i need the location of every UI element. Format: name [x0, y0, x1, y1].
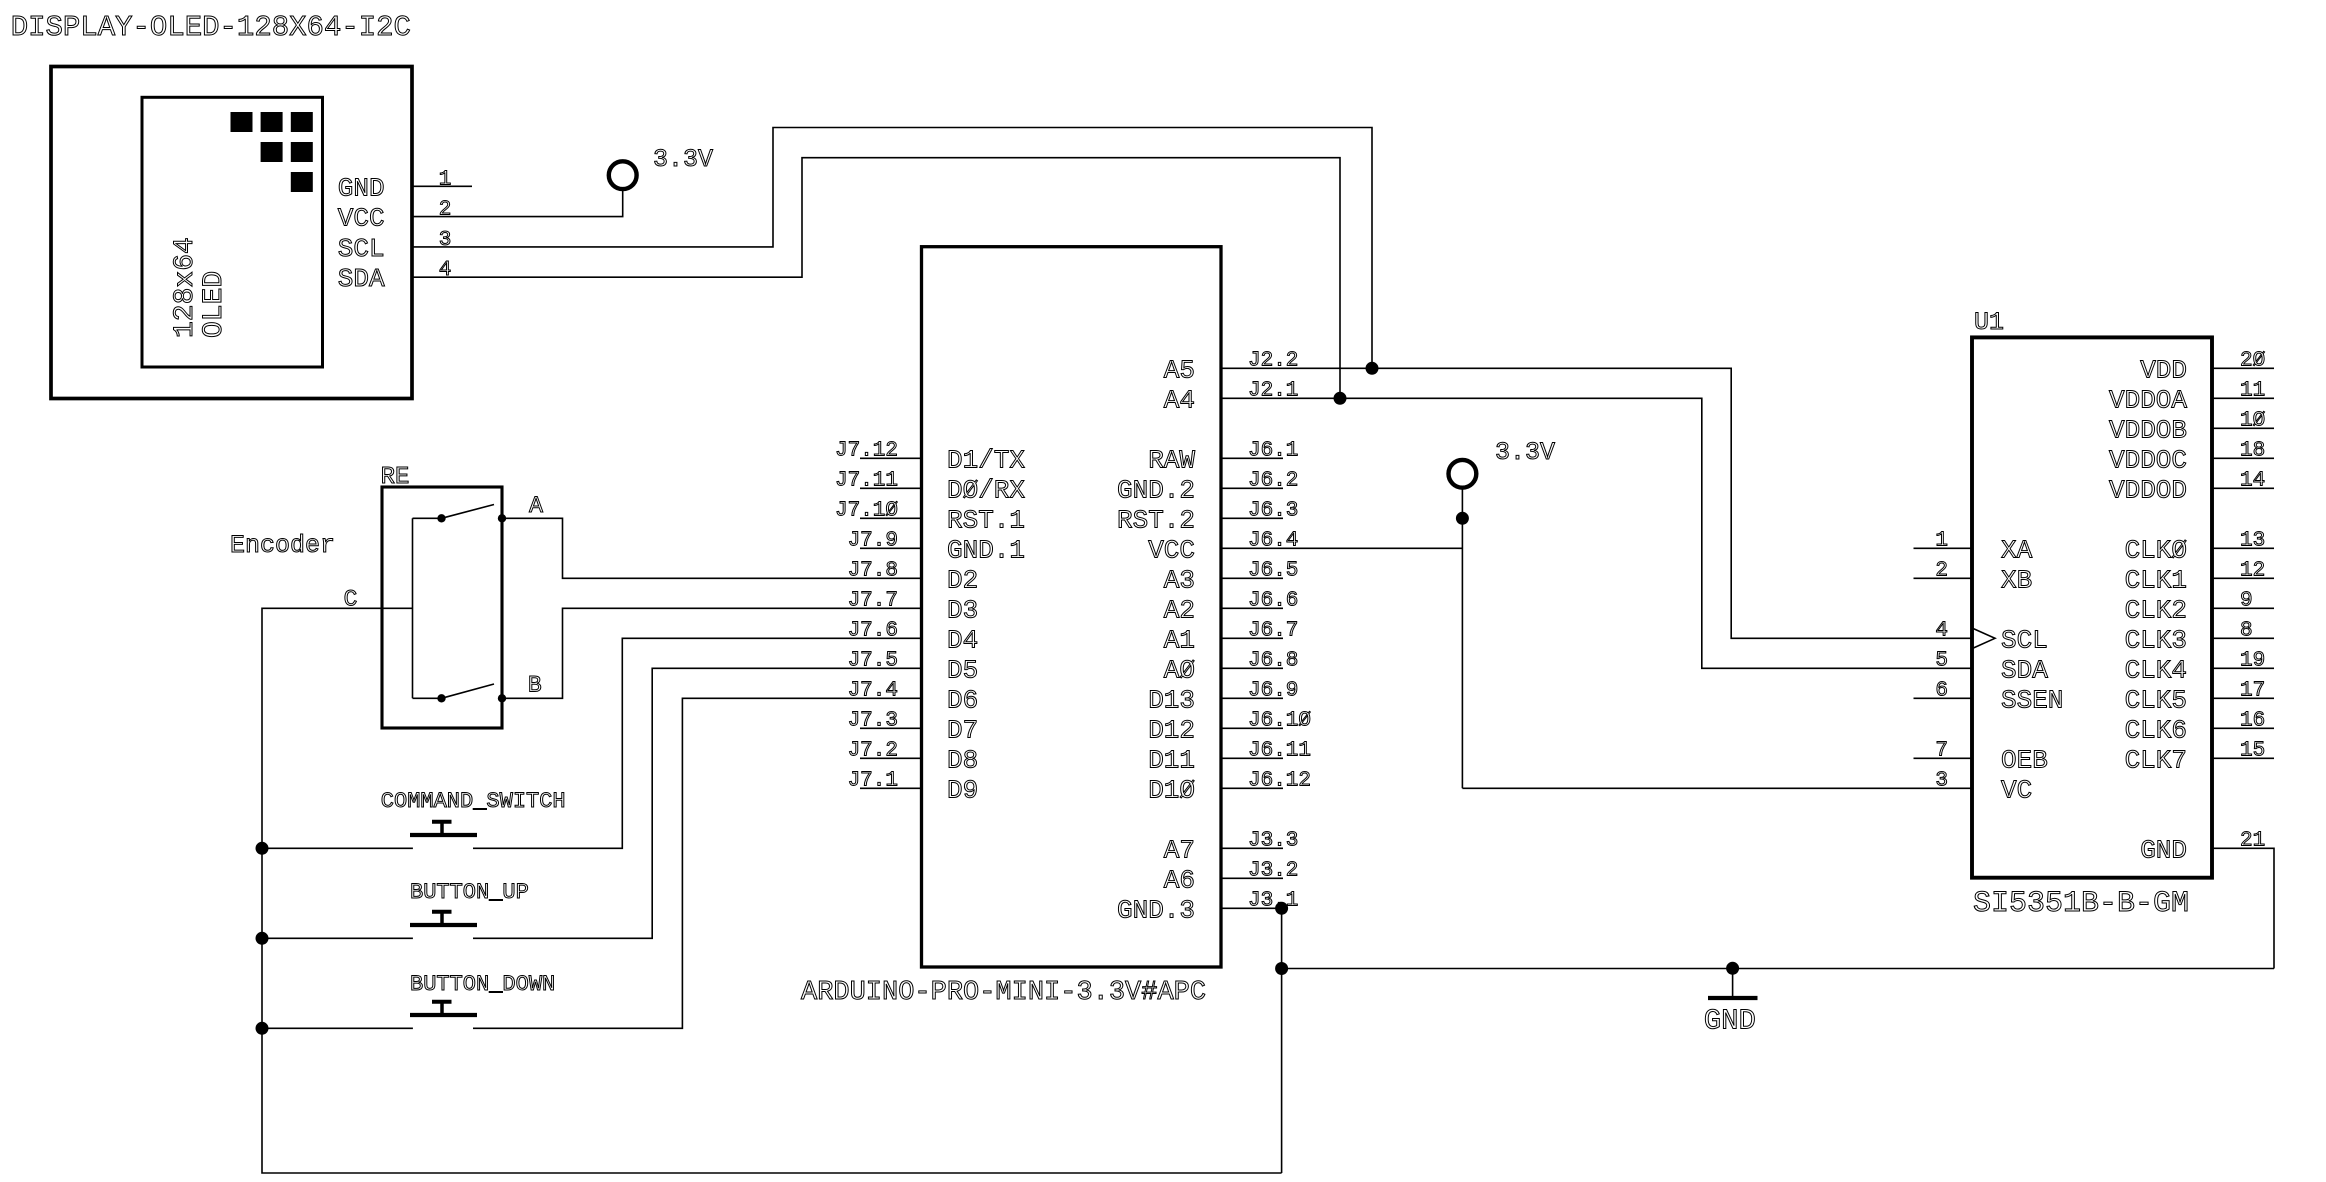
encoder switch A contact dot at pin: [498, 514, 506, 522]
wire SCL net: Arduino A5 (J2.2) to SI5351 SCL: [1221, 368, 1972, 638]
U1 pin stub wire CLK7: [2212, 757, 2274, 759]
svg-text:3: 3: [1935, 769, 1948, 792]
Arduino pin stub wire row 13: [1221, 757, 1283, 759]
svg-text:VC: VC: [2001, 775, 2032, 805]
svg-text:CLK2: CLK2: [2125, 595, 2187, 625]
svg-text:A1: A1: [1164, 625, 1195, 655]
wire 3.3V net: to SI5351 VC pin 3: [1462, 787, 1972, 789]
svg-text:GND: GND: [338, 173, 385, 203]
svg-text:D9: D9: [947, 775, 978, 805]
U1 pin stub wire VDDOB: [2212, 427, 2274, 429]
U1 SCL clock arrow: [1972, 628, 1995, 649]
wire SDA net: Arduino A4 (J2.1) to SI5351 SDA: [1221, 398, 1972, 668]
COMMAND_SWITCH actuator cap: [432, 820, 452, 824]
svg-text:D5: D5: [947, 655, 978, 685]
svg-text:3: 3: [439, 229, 452, 252]
wire GND net: Arduino GND.3 (J3.1) down: [1221, 908, 1282, 1173]
svg-text:SCL: SCL: [2001, 625, 2048, 655]
svg-text:Encoder: Encoder: [230, 531, 335, 560]
wire SCL net: OLED pin 3 up and across the top: [412, 128, 1372, 369]
Arduino pin stub wire row 14: [1221, 787, 1283, 789]
BUTTON_UP actuator cap: [432, 910, 452, 914]
U1 pin stub wire CLK3: [2212, 637, 2274, 639]
svg-text:A5: A5: [1164, 355, 1195, 385]
Arduino pin stub wire J7.12: [860, 457, 922, 459]
junction on ground rail at BUTTON_UP: [256, 932, 269, 945]
U1 pin stub wire VDDOD: [2212, 487, 2274, 489]
wire net: BUTTON_UP to Arduino: [473, 668, 922, 938]
encoder switch B contact dot at pin: [498, 694, 506, 702]
Arduino pin stub wire row 4: [1221, 487, 1283, 489]
svg-text:XB: XB: [2001, 565, 2032, 595]
svg-text:D4: D4: [947, 625, 978, 655]
svg-text:VCC: VCC: [1148, 535, 1195, 565]
OLED pixel pattern squares: [231, 112, 253, 132]
svg-text:GND.1: GND.1: [947, 535, 1025, 565]
BUTTON_UP actuator bar: [410, 923, 477, 927]
svg-text:128x64: 128x64: [170, 237, 201, 338]
junction at J3.1 corner: [1275, 902, 1288, 915]
svg-text:D3: D3: [947, 595, 978, 625]
junction on ground rail at BUTTON_DOWN: [256, 1022, 269, 1035]
U1 box outline: [1972, 337, 2212, 877]
svg-text:RST.2: RST.2: [1117, 505, 1195, 535]
BUTTON_DOWN left contact wire: [262, 1027, 413, 1029]
svg-text:RAW: RAW: [1148, 445, 1195, 475]
ground symbol bar: [1708, 996, 1758, 1000]
wire GND net: SI5351 GND pin 21: [2212, 848, 2274, 968]
svg-text:D8: D8: [947, 745, 978, 775]
svg-text:VDDOD: VDDOD: [2109, 475, 2187, 505]
svg-text:U1: U1: [1974, 308, 2004, 337]
Arduino pin stub wire J7.11: [860, 487, 922, 489]
svg-text:D1/TX: D1/TX: [947, 445, 1025, 475]
Arduino pin stub wire J7.9: [860, 547, 922, 549]
svg-text:CLK4: CLK4: [2125, 655, 2187, 685]
svg-text:DISPLAY-OLED-128X64-I2C: DISPLAY-OLED-128X64-I2C: [11, 11, 411, 44]
Arduino pin stub wire J7.3: [860, 727, 922, 729]
encoder switch A pole dot: [437, 514, 445, 522]
U1 pin stub wire CLK6: [2212, 727, 2274, 729]
wire SDA net: OLED pin 4 up and across: [412, 158, 1340, 399]
svg-text:D7: D7: [947, 715, 978, 745]
junction at ground symbol tap: [1726, 962, 1739, 975]
Arduino pin stub wire J7.2: [860, 757, 922, 759]
U1 pin stub wire VDD: [2212, 367, 2274, 369]
svg-text:XA: XA: [2001, 535, 2033, 565]
U1 pin stub wire VDDOC: [2212, 457, 2274, 459]
COMMAND_SWITCH actuator stem: [440, 822, 444, 835]
svg-text:RST.1: RST.1: [947, 505, 1025, 535]
component Arduino: box outline ARDUINO-PRO-MINI-3.3V#APC: [922, 247, 1222, 967]
U1 pin stub wire VDDOA: [2212, 397, 2274, 399]
svg-text:D1Ø: D1Ø: [1148, 775, 1195, 805]
COMMAND_SWITCH actuator bar: [410, 833, 477, 837]
svg-text:A7: A7: [1164, 835, 1195, 865]
svg-text:SDA: SDA: [338, 264, 385, 294]
svg-text:CLK7: CLK7: [2125, 745, 2187, 775]
BUTTON_UP actuator stem: [440, 912, 444, 925]
svg-text:D13: D13: [1148, 685, 1195, 715]
encoder switch B pole dot: [437, 694, 445, 702]
U1 pin stub wire CLK1: [2212, 577, 2274, 579]
svg-text:3.3V: 3.3V: [1495, 438, 1555, 467]
U1 pin stub wire XA: [1914, 547, 1973, 549]
svg-text:VCC: VCC: [338, 204, 385, 234]
svg-text:J2.2: J2.2: [1248, 349, 1298, 372]
power symbol 3.3V #2: [1449, 460, 1477, 488]
OLED outer box: [51, 67, 412, 399]
BUTTON_DOWN actuator cap: [432, 1000, 452, 1004]
svg-text:VDDOC: VDDOC: [2109, 445, 2187, 475]
encoder switch A lever: [442, 505, 495, 519]
encoder switch A contact wire: [413, 517, 442, 519]
wire net: COMMAND_SWITCH to Arduino: [473, 638, 922, 848]
Arduino pin stub wire J7.10: [860, 517, 922, 519]
svg-text:GND: GND: [2140, 835, 2187, 865]
svg-text:SI5351B-B-GM: SI5351B-B-GM: [1973, 887, 2189, 921]
wire net ENC_B: encoder B to Arduino D3 (J7.7): [502, 608, 922, 698]
Arduino pin stub wire J7.1: [860, 787, 922, 789]
svg-text:VDD: VDD: [2140, 355, 2187, 385]
Arduino pin stub wire row 16: [1221, 847, 1283, 849]
svg-text:B: B: [528, 673, 542, 699]
svg-text:VDDOB: VDDOB: [2109, 415, 2187, 445]
svg-text:A: A: [529, 493, 543, 519]
U1 pin stub wire OEB: [1914, 757, 1973, 759]
svg-text:A4: A4: [1164, 385, 1195, 415]
wire GND net: horizontal run to SI5351 GND: [1282, 968, 2274, 970]
Arduino pin stub wire row 8: [1221, 607, 1283, 609]
svg-text:A2: A2: [1164, 595, 1195, 625]
svg-text:J6.4: J6.4: [1248, 529, 1298, 552]
svg-text:COMMAND_SWITCH: COMMAND_SWITCH: [381, 789, 566, 814]
junction on A4/SDA net: [1334, 392, 1347, 405]
wire net GND: encoder C to left ground rail and bottom rail: [262, 608, 1282, 1173]
U1 pin stub wire CLK2: [2212, 607, 2274, 609]
svg-text:BUTTON_UP: BUTTON_UP: [410, 880, 529, 905]
Arduino pin stub wire row 3: [1221, 457, 1283, 459]
svg-text:D11: D11: [1148, 745, 1195, 775]
svg-text:4: 4: [439, 259, 452, 282]
COMMAND_SWITCH left contact wire: [262, 847, 413, 849]
svg-text:A3: A3: [1164, 565, 1195, 595]
junction on 3.3V vertical: [1456, 512, 1469, 525]
junction on A5/SCL net: [1366, 362, 1379, 375]
svg-text:AØ: AØ: [1164, 655, 1195, 685]
U1 pin stub wire XB: [1914, 577, 1973, 579]
svg-text:GND.3: GND.3: [1117, 895, 1195, 925]
svg-text:D12: D12: [1148, 715, 1195, 745]
svg-text:A6: A6: [1164, 865, 1195, 895]
wire net: BUTTON_DOWN to Arduino: [473, 698, 922, 1028]
svg-text:SSEN: SSEN: [2001, 685, 2063, 715]
encoder common vertical bar: [412, 518, 414, 698]
svg-text:3.3V: 3.3V: [653, 145, 713, 174]
svg-text:GND: GND: [1704, 1004, 1756, 1037]
BUTTON_UP left contact wire: [262, 937, 413, 939]
svg-text:21: 21: [2240, 829, 2265, 852]
junction on GND vertical at horizontal branch: [1275, 962, 1288, 975]
wire VCC net: OLED pin 2 to 3.3V supply: [412, 189, 623, 216]
svg-text:VDDOA: VDDOA: [2109, 385, 2187, 415]
svg-text:ARDUINO-PRO-MINI-3.3V#APC: ARDUINO-PRO-MINI-3.3V#APC: [801, 978, 1206, 1008]
svg-text:D6: D6: [947, 685, 978, 715]
Arduino pin stub wire row 17: [1221, 877, 1283, 879]
wire ground symbol stem: [1732, 968, 1734, 996]
Arduino pin stub wire row 7: [1221, 577, 1283, 579]
svg-text:2: 2: [439, 199, 452, 222]
Arduino pin stub wire row 5: [1221, 517, 1283, 519]
U1 pin stub wire CLK5: [2212, 697, 2274, 699]
Arduino pin stub wire row 12: [1221, 727, 1283, 729]
svg-text:D2: D2: [947, 565, 978, 595]
svg-text:CLK3: CLK3: [2125, 625, 2187, 655]
svg-text:CLKØ: CLKØ: [2125, 535, 2187, 565]
U1 pin stub wire SSEN: [1914, 697, 1973, 699]
svg-text:CLK1: CLK1: [2125, 565, 2187, 595]
wire 3.3V net: vertical from supply to VC row: [1461, 489, 1463, 788]
svg-text:OLED: OLED: [199, 271, 230, 338]
encoder switch B lever: [442, 684, 495, 698]
svg-text:CLK6: CLK6: [2125, 715, 2187, 745]
OLED pin 1 stub wire (GND, unconnected): [412, 185, 472, 187]
wire 3.3V net: Arduino VCC (J6.4) branch: [1221, 547, 1462, 549]
U1 pin stub wire CLK4: [2212, 667, 2274, 669]
svg-text:1: 1: [439, 168, 452, 191]
svg-text:J2.1: J2.1: [1248, 379, 1298, 402]
encoder switch B contact wire: [413, 697, 442, 699]
Arduino pin stub wire row 11: [1221, 697, 1283, 699]
svg-text:4: 4: [1935, 619, 1948, 642]
junction on ground rail at COMMAND_SWITCH: [256, 842, 269, 855]
U1 pin stub wire CLK0: [2212, 547, 2274, 549]
power symbol 3.3V #1: [609, 161, 637, 189]
svg-text:OEB: OEB: [2001, 745, 2048, 775]
svg-text:SCL: SCL: [338, 234, 385, 264]
BUTTON_DOWN actuator bar: [410, 1013, 477, 1017]
svg-text:GND.2: GND.2: [1117, 475, 1195, 505]
encoder box outline: [382, 487, 502, 728]
Arduino pin stub wire row 10: [1221, 667, 1283, 669]
BUTTON_DOWN actuator stem: [440, 1002, 444, 1015]
svg-text:DØ/RX: DØ/RX: [947, 475, 1025, 505]
wire net ENC_A: encoder A to Arduino D2 (J7.8): [502, 518, 922, 578]
encoder C stub inside box: [382, 607, 413, 609]
svg-text:5: 5: [1935, 649, 1948, 672]
svg-text:BUTTON_DOWN: BUTTON_DOWN: [410, 972, 555, 997]
OLED inner box (screen): [142, 97, 323, 367]
svg-text:SDA: SDA: [2001, 655, 2048, 685]
svg-text:CLK5: CLK5: [2125, 685, 2187, 715]
Arduino pin stub wire row 9: [1221, 637, 1283, 639]
